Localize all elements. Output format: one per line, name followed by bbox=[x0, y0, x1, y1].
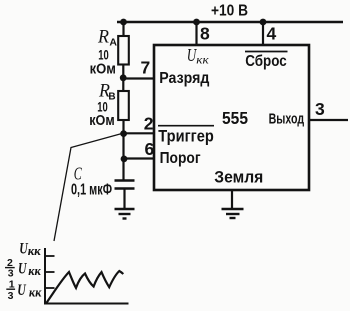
svg-text:кк: кк bbox=[28, 263, 41, 278]
wire capacitor to ground bbox=[123, 189, 125, 210]
capacitor C1 plate bottom bbox=[115, 187, 135, 190]
axis tick Uкк bbox=[45, 255, 55, 257]
wire pin 3 output bbox=[309, 119, 348, 121]
svg-text:+10 В: +10 В bbox=[211, 3, 248, 20]
svg-text:0,1 мкФ: 0,1 мкФ bbox=[71, 182, 112, 199]
svg-text:2: 2 bbox=[144, 114, 154, 134]
pin label Сброс (with overline) bbox=[245, 51, 288, 53]
wire pin 4 bbox=[262, 22, 264, 46]
axis tick 1/3 Uкк bbox=[45, 287, 55, 289]
capacitor C1 plate top bbox=[115, 179, 135, 182]
svg-text:3: 3 bbox=[8, 267, 14, 279]
svg-text:Выход: Выход bbox=[269, 112, 305, 128]
waveform axes bbox=[45, 248, 129, 304]
wire rail to RA bbox=[122, 22, 124, 36]
svg-text:Земля: Земля bbox=[214, 168, 263, 186]
resistor RB bbox=[118, 91, 129, 120]
wire pin 8 bbox=[195, 22, 197, 46]
svg-text:C: C bbox=[74, 164, 83, 184]
wire RA to RB bbox=[122, 65, 124, 92]
svg-text:кОм: кОм bbox=[90, 62, 116, 78]
svg-text:8: 8 bbox=[200, 24, 210, 44]
resistor RA bbox=[118, 36, 129, 65]
ground (555) bbox=[222, 209, 244, 218]
svg-text:Разряд: Разряд bbox=[159, 70, 209, 87]
svg-text:Сброс: Сброс bbox=[245, 53, 287, 70]
wire pin 7 bbox=[123, 77, 155, 79]
pin label Триггер (with overline) bbox=[158, 125, 214, 127]
svg-text:555: 555 bbox=[222, 108, 248, 128]
node junction pin6 bbox=[121, 156, 128, 163]
node junction rail-pin4 bbox=[260, 19, 267, 26]
svg-text:Триггер: Триггер bbox=[158, 128, 214, 146]
waveform capacitor voltage curve bbox=[46, 271, 123, 304]
node junction rail-pin8 bbox=[193, 19, 200, 26]
op 555 timer U1 box bbox=[154, 45, 309, 190]
svg-text:U: U bbox=[17, 282, 27, 299]
svg-text:кк: кк bbox=[29, 284, 42, 299]
node junction rail-RA bbox=[120, 19, 127, 26]
svg-text:4: 4 bbox=[267, 24, 277, 44]
node junction pin2 bbox=[120, 130, 127, 137]
svg-text:кк: кк bbox=[196, 53, 209, 67]
svg-text:U: U bbox=[18, 261, 28, 278]
wire callout from pin2 node to waveform bbox=[54, 134, 121, 241]
ground (capacitor) bbox=[115, 209, 135, 219]
wire pin 2 bbox=[124, 132, 155, 134]
svg-text:кк: кк bbox=[28, 243, 41, 258]
svg-text:A: A bbox=[109, 37, 117, 49]
svg-text:кОм: кОм bbox=[89, 113, 115, 129]
node junction RA-RB pin7 bbox=[120, 74, 127, 81]
axis tick 2/3 Uкк bbox=[45, 271, 55, 273]
wire +10V supply rail bbox=[117, 21, 343, 23]
wire 555 ground pin bbox=[231, 190, 233, 209]
svg-text:B: B bbox=[108, 92, 115, 103]
svg-text:7: 7 bbox=[141, 58, 151, 78]
svg-text:3: 3 bbox=[8, 290, 14, 302]
svg-text:3: 3 bbox=[315, 99, 325, 119]
wire pin 6 bbox=[124, 157, 155, 159]
svg-text:R: R bbox=[97, 28, 109, 48]
svg-text:10: 10 bbox=[98, 46, 109, 62]
wire RB to capacitor bbox=[122, 121, 124, 182]
svg-text:Порог: Порог bbox=[160, 150, 201, 167]
